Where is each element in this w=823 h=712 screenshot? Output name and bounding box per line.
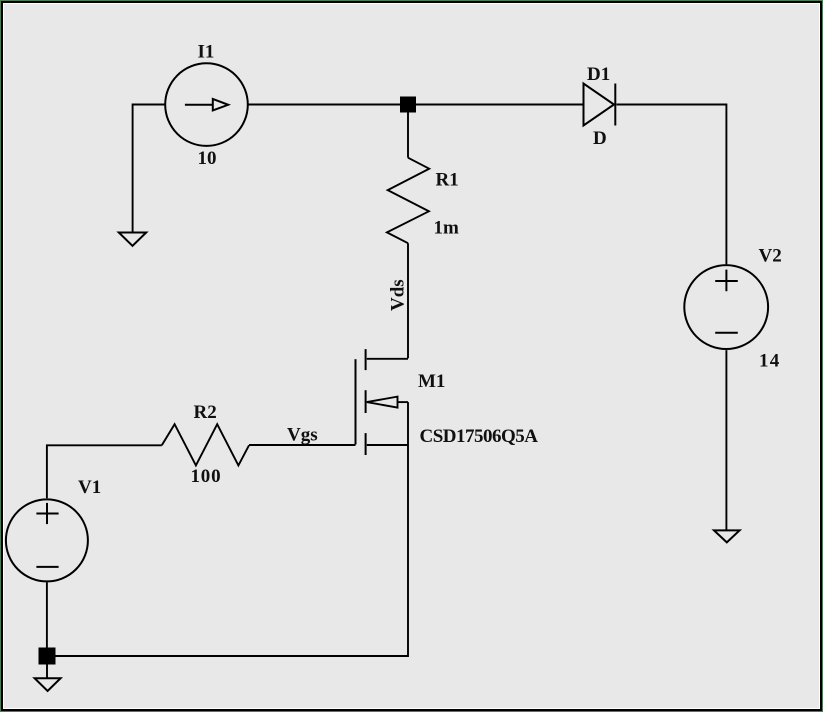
ground [35,678,61,691]
svg-text:10: 10 [198,148,217,169]
net label Vds [388,279,409,311]
wire [725,350,727,530]
svg-text:M1: M1 [418,371,445,392]
svg-text:14: 14 [759,351,780,372]
wire [46,582,48,647]
svg-text:R1: R1 [436,170,459,191]
MOSFET M1 [356,349,409,455]
wire [249,444,356,446]
svg-text:V2: V2 [759,246,782,267]
svg-text:I1: I1 [198,42,215,63]
svg-text:100: 100 [191,466,222,487]
ground [119,233,146,246]
value 14 [759,351,780,372]
label D1 [587,64,610,85]
label R2 [194,402,217,423]
label V2 [759,246,782,267]
wire [56,445,409,656]
label V1 [78,477,101,498]
label M1 [418,371,445,392]
svg-text:D: D [593,128,607,149]
svg-text:V1: V1 [78,477,101,498]
label R1 [436,170,459,191]
svg-text:1m: 1m [434,218,460,239]
net label Vgs [287,425,318,446]
resistor R1 [387,158,429,244]
value 10 [198,148,217,169]
node junction [39,648,56,665]
value D [593,128,607,149]
svg-text:CSD17506Q5A: CSD17506Q5A [420,426,539,447]
diode D1 [584,84,616,126]
wire [46,665,48,679]
svg-text:Vgs: Vgs [287,425,318,446]
svg-text:D1: D1 [587,64,610,85]
voltage source V2 [684,265,768,349]
svg-text:R2: R2 [194,402,217,423]
wire [248,104,400,106]
voltage source V1 [6,499,88,581]
node junction [400,97,416,113]
wire [416,104,584,106]
svg-text:Vds: Vds [388,279,409,311]
ground [714,530,740,542]
label I1 [198,42,215,63]
wire [407,113,409,158]
wire [133,105,165,233]
resistor R2 [162,424,249,465]
value CSD17506Q5A [420,426,539,447]
wire [617,105,727,265]
value 1m [434,218,460,239]
wire [407,243,409,358]
value 100 [191,466,222,487]
wire [47,445,162,498]
current source I1 [165,63,248,146]
